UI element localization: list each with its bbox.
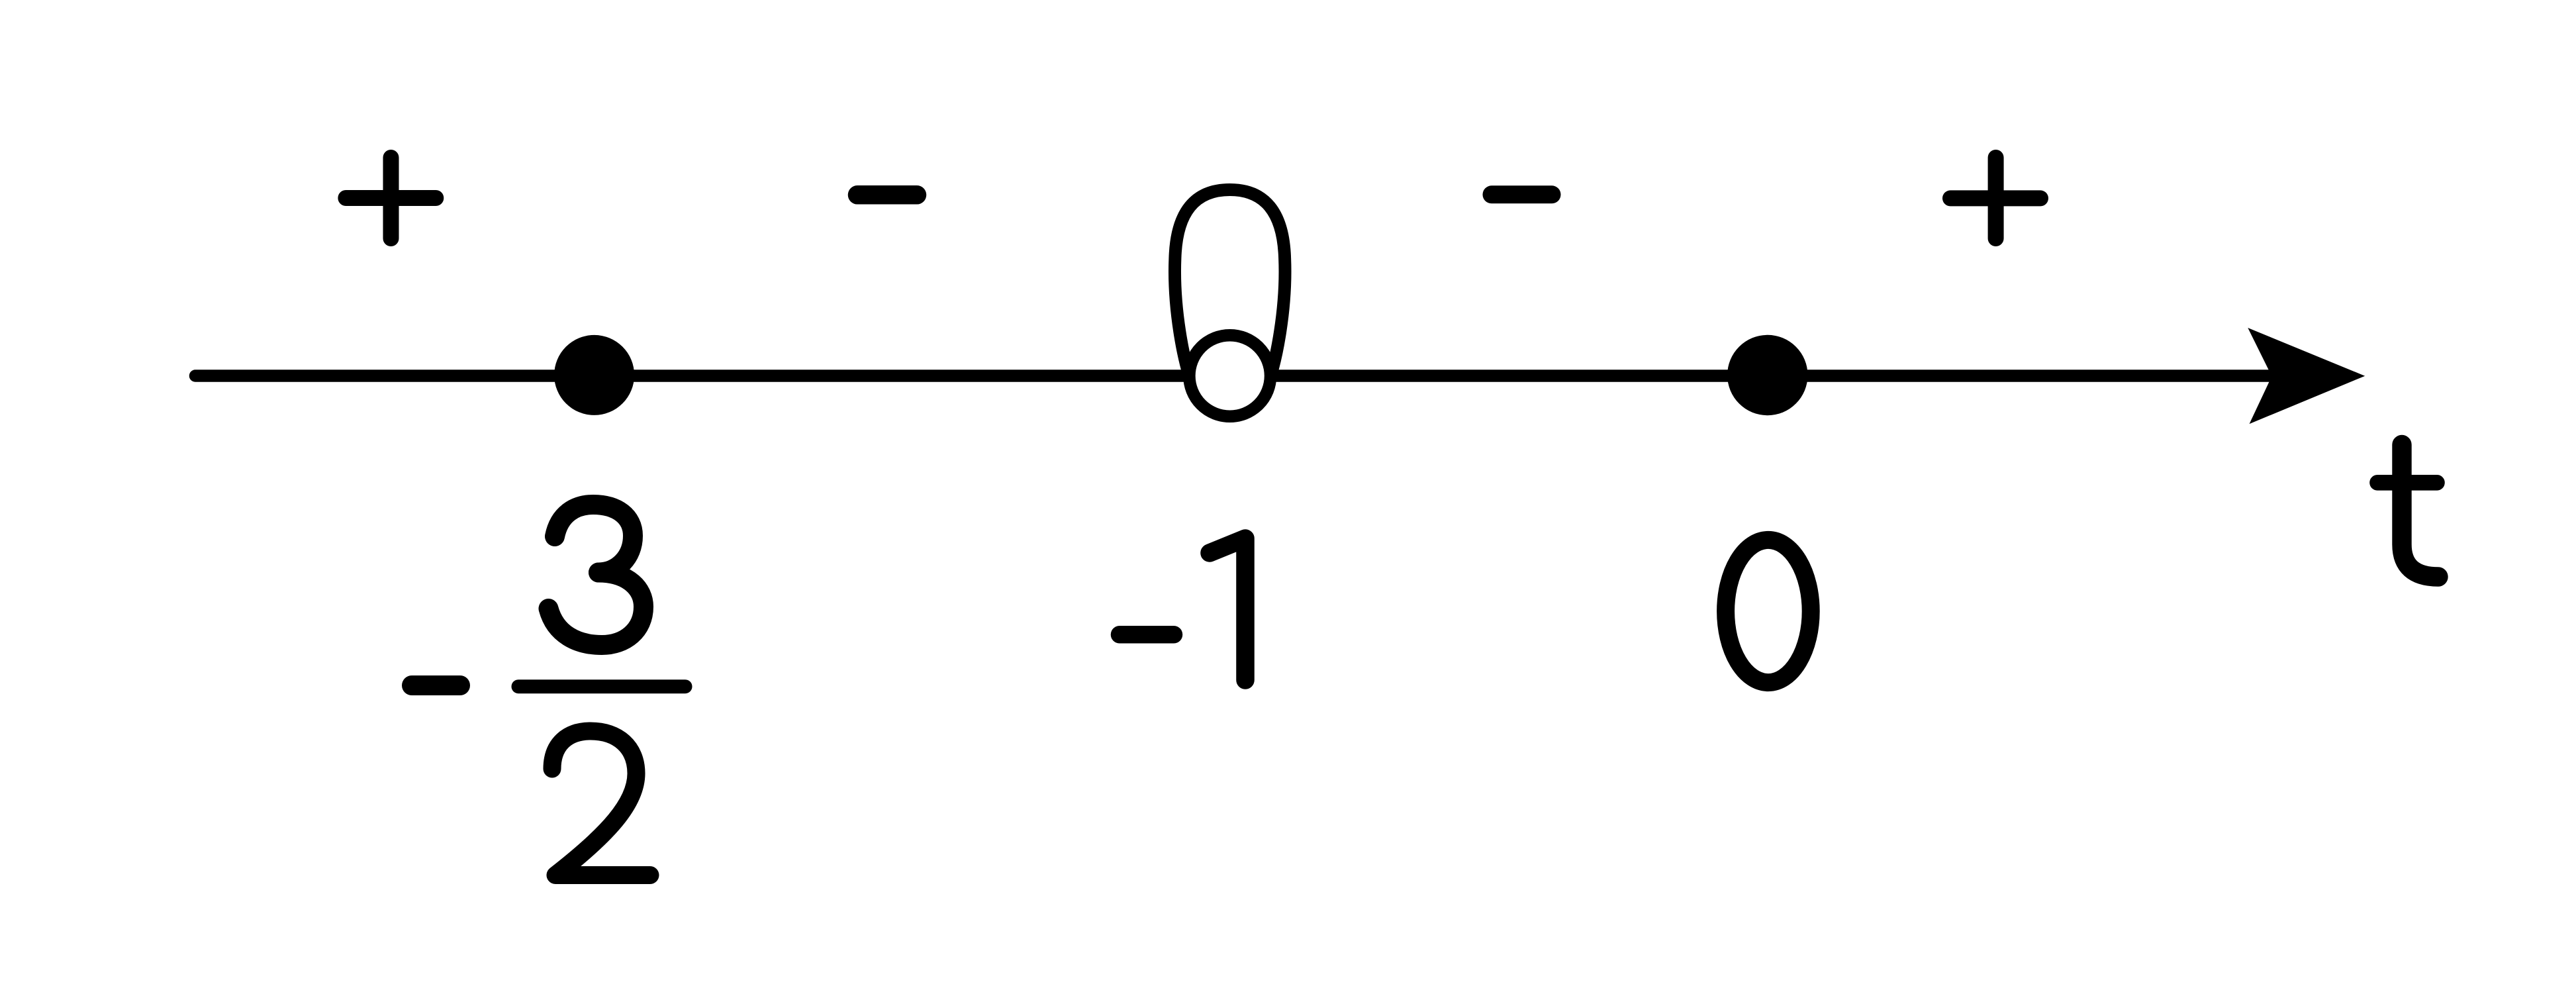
number line (axis) (195, 370, 2311, 382)
arrowhead (2248, 328, 2365, 424)
label -3/2: fraction bar (518, 679, 685, 693)
minus sign (between -1 and 0) (1492, 185, 1552, 203)
axis label t (2377, 445, 2438, 577)
plus sign (rightmost interval) (1950, 158, 2040, 238)
filled dot at -3/2 (554, 335, 634, 415)
label -3/2: numerator 3 (555, 505, 633, 573)
label -1: digit 1 (1210, 538, 1245, 680)
label 0 (1726, 540, 1811, 682)
filled dot at 0 (1727, 335, 1807, 415)
label -3/2: denominator 2 (552, 731, 650, 875)
label -3/2: minus (412, 675, 460, 695)
open circle at -1 (1189, 335, 1270, 417)
plus sign (leftmost interval) (346, 158, 436, 238)
minus sign (between -3/2 and -1) (857, 185, 917, 205)
label -1: minus (1120, 626, 1174, 644)
loop (even multiplicity petal) at -1 (1175, 190, 1285, 394)
